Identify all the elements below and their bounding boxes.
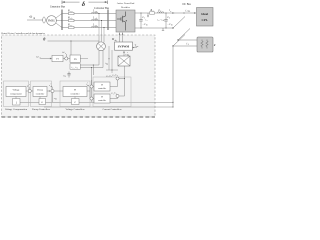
svg-text:dc: dc (51, 86, 53, 88)
svg-text:CPL: CPL (202, 18, 208, 22)
svg-text:Voltage Controllers: Voltage Controllers (66, 108, 85, 111)
svg-text:2: 2 (169, 18, 170, 20)
svg-text:Current Controllers: Current Controllers (102, 108, 121, 111)
svg-text:Droop: Droop (37, 90, 43, 92)
svg-text:s,b: s,b (95, 18, 97, 20)
svg-text:Voltage: Voltage (13, 89, 20, 92)
svg-text:R: R (213, 44, 216, 47)
svg-text:s,c: s,c (70, 25, 72, 27)
svg-text:Ideal: Ideal (201, 12, 208, 16)
svg-text:controller: controller (98, 88, 106, 90)
svg-text:s,b: s,b (70, 18, 72, 20)
svg-text:G: G (41, 101, 43, 104)
svg-text:θ: θ (43, 36, 45, 41)
svg-text:Rectifier: Rectifier (121, 6, 130, 9)
svg-text:dq: dq (87, 84, 89, 87)
svg-text:1/s: 1/s (74, 58, 77, 61)
svg-text:controller: controller (71, 93, 80, 95)
svg-text:PMSG: PMSG (48, 20, 55, 23)
svg-text:m: m (33, 17, 35, 20)
svg-text:DC Bus: DC Bus (183, 3, 191, 6)
svg-text:Active Front-End: Active Front-End (117, 2, 135, 5)
svg-text:controller: controller (98, 100, 106, 102)
svg-text:*: * (29, 85, 30, 87)
svg-text:PI: PI (56, 58, 58, 61)
svg-text:Virtual Vector Controllers and: Virtual Vector Controllers and dc-bus dy… (1, 33, 45, 35)
svg-text:Voltage Compensation: Voltage Compensation (5, 108, 28, 111)
svg-text:Generator Bus: Generator Bus (50, 5, 65, 8)
svg-text:PI: PI (101, 97, 103, 99)
svg-text:dc: dc (146, 25, 148, 27)
svg-text:dq: dq (115, 39, 117, 42)
svg-text:compensator: compensator (10, 93, 22, 95)
svg-text:dc: dc (55, 99, 57, 101)
svg-text:controller: controller (36, 93, 45, 95)
svg-text:dc: dc (163, 20, 165, 22)
svg-text:Droop Controllers: Droop Controllers (32, 108, 50, 111)
svg-text:s,c: s,c (95, 25, 97, 27)
svg-text:ω: ω (30, 15, 33, 19)
svg-text:s,a: s,a (95, 11, 97, 13)
svg-text:dc: dc (171, 25, 173, 27)
svg-text:ω: ω (37, 56, 39, 59)
svg-text:PI: PI (74, 90, 76, 92)
svg-text:PI: PI (101, 85, 103, 87)
svg-text:Converter Bus: Converter Bus (94, 7, 109, 10)
svg-text:SVPWM: SVPWM (118, 45, 130, 49)
svg-text:b: b (77, 67, 78, 69)
svg-text:o: o (170, 11, 171, 13)
svg-text:s,a: s,a (70, 11, 72, 13)
svg-text:∫: ∫ (15, 101, 17, 104)
